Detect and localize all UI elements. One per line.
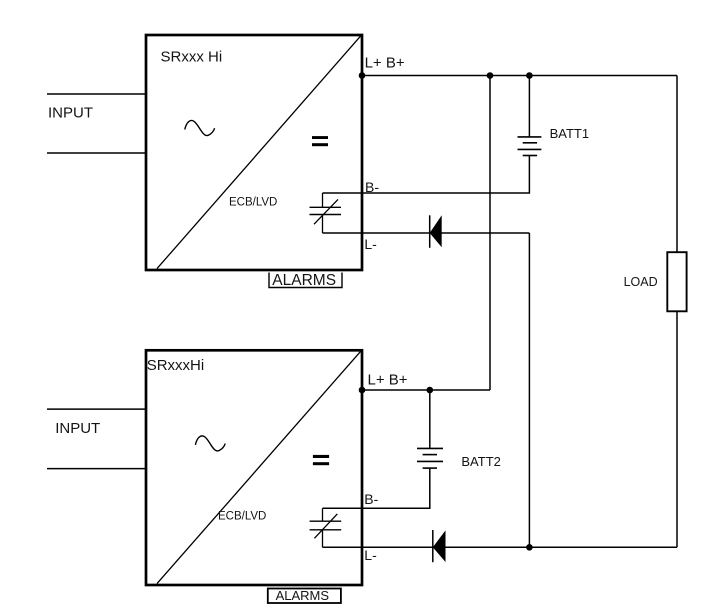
U1 AC/DC divider diagonal bbox=[157, 36, 361, 269]
diode D2 (U2 L- ORing) bbox=[433, 530, 446, 562]
svg-text:ECB/LVD: ECB/LVD bbox=[218, 511, 266, 523]
svg-text:L-: L- bbox=[364, 547, 377, 563]
U2 DC "=" symbol bbox=[313, 455, 329, 465]
junction dot U2 bus / BATT2 positive bbox=[427, 387, 434, 394]
junction dot bottom bus / U1 L- drop bbox=[526, 544, 533, 551]
svg-text:L-: L- bbox=[364, 236, 377, 252]
svg-text:B-: B- bbox=[365, 179, 379, 195]
svg-text:INPUT: INPUT bbox=[55, 420, 100, 437]
wire U2 AC input bottom bbox=[47, 468, 146, 470]
svg-text:ALARMS: ALARMS bbox=[276, 588, 330, 603]
wire L- (U1) through diode bbox=[323, 232, 530, 234]
U1 AC sine symbol bbox=[185, 120, 215, 135]
svg-text:L+ B+: L+ B+ bbox=[365, 55, 405, 72]
svg-text:BATT2: BATT2 bbox=[461, 454, 501, 469]
wire load rail bottom bbox=[676, 311, 678, 547]
junction dot U1 output L+ bbox=[359, 72, 366, 79]
svg-text:ECB/LVD: ECB/LVD bbox=[229, 197, 277, 209]
wire BATT2 positive lead bbox=[429, 390, 431, 448]
wire paralleling riser (top bus to U2 L+ B+) bbox=[489, 76, 491, 391]
wire BATT1 positive lead bbox=[528, 76, 530, 137]
svg-text:L+ B+: L+ B+ bbox=[368, 372, 408, 389]
wire load rail top bbox=[676, 76, 678, 253]
junction dot top bus / BATT1 positive bbox=[526, 72, 533, 79]
wire L- (U2) bottom bus through diode bbox=[323, 546, 678, 548]
svg-text:INPUT: INPUT bbox=[48, 105, 93, 122]
svg-text:BATT1: BATT1 bbox=[550, 126, 590, 141]
wire B- (U1) to BATT1 negative bbox=[323, 156, 530, 194]
U2 LVD contactor K2 bbox=[310, 508, 342, 547]
battery BATT1 bbox=[518, 137, 542, 156]
diode D1 (U1 L- ORing) bbox=[430, 215, 442, 248]
wire L+/B+ (U2) to riser bbox=[362, 389, 490, 391]
junction dot U2 output L+ bbox=[359, 387, 366, 394]
svg-text:ALARMS: ALARMS bbox=[272, 272, 336, 289]
battery BATT2 bbox=[417, 448, 443, 468]
U1 ALARMS box bbox=[269, 273, 342, 288]
wire U1 AC input bottom bbox=[47, 152, 146, 154]
resistor LOAD bbox=[667, 252, 686, 311]
junction dot top bus / paralleling riser bbox=[487, 72, 494, 79]
U2 AC sine symbol bbox=[195, 436, 225, 451]
svg-text:LOAD: LOAD bbox=[624, 275, 658, 289]
U2 ALARMS box bbox=[268, 589, 341, 604]
wire B- (U2) to BATT2 negative bbox=[323, 468, 430, 508]
wire U1 AC input top bbox=[47, 93, 146, 95]
rectifier U1 box (SRxxx Hi) bbox=[146, 35, 362, 270]
wire L+/B+ top bus bbox=[362, 75, 677, 77]
U2 AC/DC divider diagonal bbox=[157, 351, 361, 584]
U1 DC "=" symbol bbox=[312, 136, 328, 146]
U1 LVD contactor K1 bbox=[310, 193, 342, 233]
svg-text:SRxxx Hi: SRxxx Hi bbox=[161, 49, 223, 66]
svg-text:SRxxxHi: SRxxxHi bbox=[147, 357, 205, 374]
rectifier U2 box (SRxxxHi) bbox=[146, 350, 362, 585]
svg-text:B-: B- bbox=[364, 491, 378, 507]
wire U2 AC input top bbox=[47, 408, 146, 410]
wire U1 L- drop to bottom bus bbox=[528, 233, 530, 547]
